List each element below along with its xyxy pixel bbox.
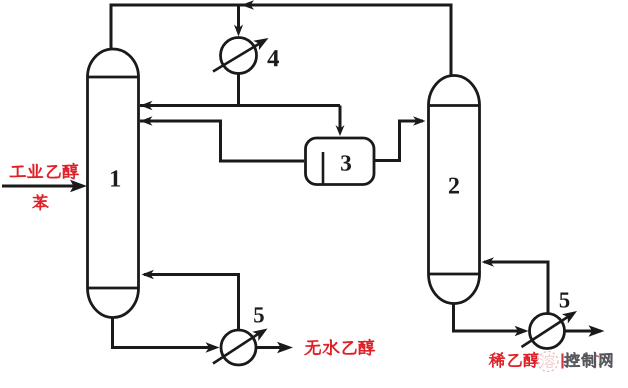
wire decanter 3 outlet to column 2 (375, 121, 423, 161)
condenser 4 (213, 33, 271, 73)
wire feed line into column 1 (2, 185, 83, 188)
arrow feed into column 2 (413, 116, 426, 126)
column 1 vessel (88, 49, 139, 318)
column 2 vessel (429, 76, 480, 304)
arrow into exchanger 5 left (206, 342, 220, 352)
wire column 2 bottoms to exchanger 5 right (454, 302, 526, 331)
wire exchanger 5 left product out (257, 346, 289, 349)
wire column 1 overhead riser (111, 5, 240, 50)
arrow product dilute ethanol out (589, 325, 605, 337)
label 5 left (254, 307, 264, 322)
arrow on top header pointing left (241, 0, 254, 10)
label dilute ethanol (red) (489, 352, 505, 367)
arrow into exchanger 5 right (515, 326, 529, 336)
label 5 right (560, 292, 570, 307)
watermark logo dashed circle (538, 352, 558, 372)
arrow return into column 2 bottom (482, 257, 495, 267)
label 1 (111, 170, 120, 186)
arrow product anhydrous ethanol out (277, 342, 293, 354)
arrow down into decanter 3 (336, 125, 345, 136)
wire exchanger 5 right product out (565, 330, 601, 333)
label industrial ethanol feed (red) (10, 166, 26, 177)
arrow feed into column 1 (70, 180, 87, 193)
decanter 3 (306, 138, 375, 185)
watermark faded glyph (540, 354, 555, 369)
wire reflux line to column 1 (140, 104, 340, 107)
wire exchanger 5 right return to column 2 (484, 262, 548, 313)
watermark red fringe marks (561, 354, 563, 369)
wire condenser 4 outlet (237, 74, 240, 105)
arrow return into column 1 bottom (142, 270, 155, 280)
arrow reflux into column 1 (140, 101, 153, 111)
exchanger 5 right (522, 306, 580, 348)
arrow aqueous return into column 1 (140, 116, 153, 126)
label 4 (267, 50, 279, 66)
wire condenser 4 feed drop (237, 5, 240, 29)
watermark kongzhiwang text (564, 353, 580, 368)
wire aqueous return into column 1 (140, 121, 304, 161)
label 2 (449, 178, 459, 194)
label 3 (341, 155, 351, 170)
wire column 2 overhead downcomer (240, 5, 451, 77)
exchanger 5 left (213, 324, 270, 365)
arrow into condenser 4 (234, 25, 243, 37)
wire drop into decanter 3 (339, 106, 342, 130)
label anhydrous ethanol (red) (305, 340, 321, 355)
label benzene (red) (32, 194, 48, 210)
wire column 1 bottoms to exchanger 5 left (113, 316, 217, 348)
wire exchanger 5 left return to column 1 (144, 275, 239, 330)
